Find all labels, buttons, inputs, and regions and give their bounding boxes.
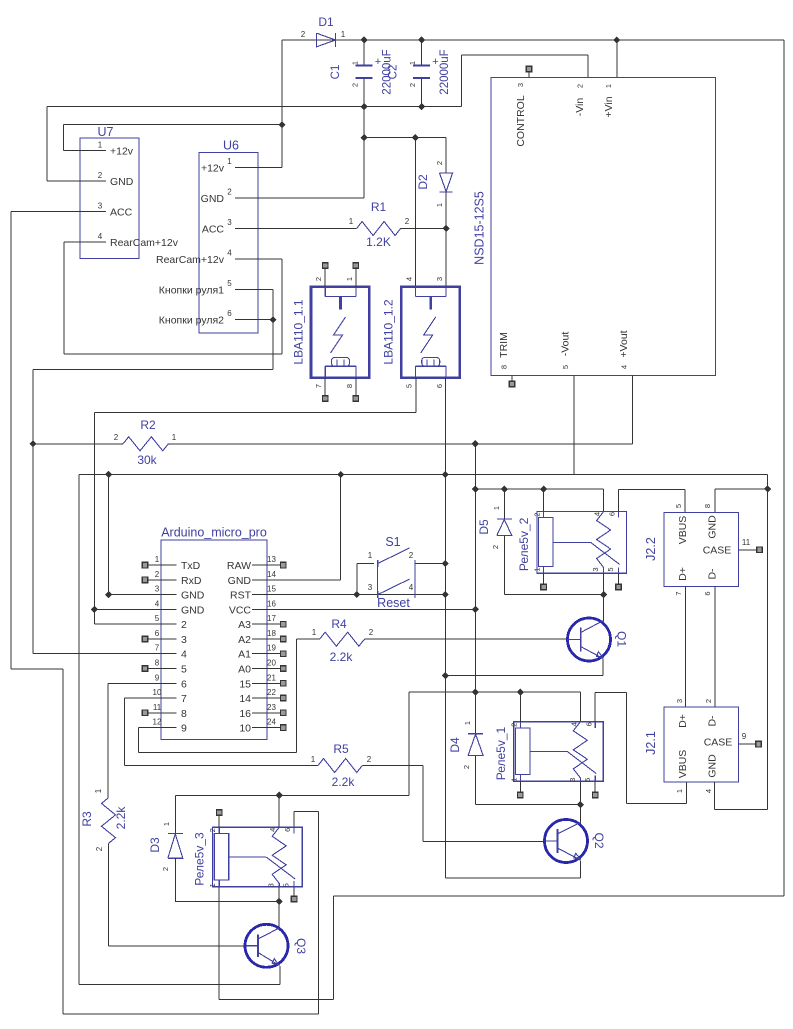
svg-text:1: 1 (341, 30, 346, 39)
node relay1 coil tap (517, 689, 524, 696)
wire -Vout GND rail (79, 474, 768, 476)
svg-text:+: + (432, 56, 438, 68)
wire +12V top rail (282, 39, 784, 41)
wire to U6 pin1 (281, 125, 283, 168)
wire U7 pin3 ACC to left rail (11, 211, 64, 213)
svg-text:13: 13 (267, 555, 276, 564)
node +5V tap (472, 440, 479, 447)
node Q3 collector/D3 (276, 898, 283, 905)
wire arduino GND14 (340, 475, 342, 580)
svg-text:1: 1 (98, 141, 103, 150)
svg-text:1: 1 (172, 433, 177, 442)
svg-text:+12v: +12v (201, 163, 225, 175)
svg-text:2: 2 (576, 84, 585, 88)
svg-text:4: 4 (569, 722, 578, 726)
svg-text:1: 1 (227, 157, 232, 166)
svg-text:1.2K: 1.2K (366, 235, 391, 249)
svg-text:3: 3 (516, 83, 525, 87)
relay2 pin5 pad (618, 573, 620, 584)
svg-text:6: 6 (703, 591, 712, 595)
svg-text:8: 8 (345, 384, 354, 388)
svg-text:9: 9 (742, 732, 747, 741)
node C1 top (361, 36, 368, 43)
svg-text:CASE: CASE (704, 737, 733, 749)
wire C1 to sub-rail (363, 107, 365, 138)
node S1 pin3 tap (353, 591, 360, 598)
svg-text:Q3: Q3 (294, 938, 308, 954)
wire J2.2 D- to J2.1 D- (714, 587, 716, 707)
svg-text:1: 1 (492, 506, 501, 510)
wire D1 anode drop to +12v node (281, 40, 283, 125)
svg-text:3: 3 (568, 778, 577, 782)
svg-text:1: 1 (351, 61, 360, 65)
svg-text:J2.2: J2.2 (644, 537, 658, 561)
capacitor C2 (421, 40, 423, 66)
svg-text:7: 7 (155, 644, 160, 653)
svg-text:11: 11 (742, 538, 751, 547)
wire U7 pin2 GND (46, 107, 48, 182)
wire LBA110_1.2 pin4 (414, 138, 416, 287)
node GND sub-rail left (361, 134, 368, 141)
module Arduino_micro_pro (161, 540, 267, 739)
svg-text:D1: D1 (318, 15, 334, 29)
svg-text:-Vin: -Vin (574, 98, 586, 117)
connector U7 (80, 138, 139, 258)
pin +Vout 4 (631, 375, 633, 444)
svg-text:2: 2 (114, 433, 119, 442)
svg-text:23: 23 (267, 703, 276, 712)
wire relay1 pin2 (519, 692, 521, 722)
relay Реле5v_3 (213, 827, 303, 887)
node +5V relay1 rail (472, 689, 479, 696)
node +5V VCC tap (472, 606, 479, 613)
svg-text:2.2k: 2.2k (114, 806, 128, 830)
wire VCC to +5V (267, 608, 475, 610)
resistor R3 (102, 798, 116, 844)
wire relay2 +5V rail (475, 488, 603, 490)
svg-text:5: 5 (561, 365, 570, 369)
wire D2 cathode chain (445, 138, 447, 173)
svg-text:2: 2 (369, 628, 374, 637)
transistor Q2 (545, 820, 588, 863)
svg-text:A1: A1 (238, 649, 251, 661)
connector U6 (199, 152, 258, 332)
svg-text:5: 5 (404, 384, 413, 388)
node arduino GND14 tap (337, 471, 344, 478)
svg-text:4: 4 (620, 365, 629, 369)
svg-text:4: 4 (98, 232, 103, 241)
svg-text:D+: D+ (677, 714, 689, 728)
svg-text:GND: GND (201, 193, 225, 205)
svg-text:5: 5 (155, 614, 160, 623)
svg-text:GND: GND (110, 176, 134, 188)
svg-text:A0: A0 (238, 663, 251, 675)
optocoupler LBA110_1.2 (401, 287, 459, 378)
svg-text:2: 2 (462, 765, 471, 769)
svg-text:2: 2 (367, 755, 372, 764)
resistor R4 (320, 632, 365, 646)
svg-text:21: 21 (267, 673, 276, 682)
wire relay3 pin3 to Q3 collector (278, 887, 280, 929)
svg-text:4: 4 (704, 789, 713, 793)
pin CONTROL 3 (528, 72, 530, 78)
svg-text:CASE: CASE (703, 545, 732, 557)
relay2 pin1 pad (543, 573, 545, 584)
svg-text:18: 18 (267, 629, 276, 638)
node J2.2 GND tee (764, 485, 771, 492)
svg-text:3: 3 (181, 634, 187, 646)
svg-text:1: 1 (345, 277, 354, 281)
wire GND top rail y=106.7 (47, 106, 462, 108)
wire J2.2 pin8 GND (715, 488, 768, 490)
node Q2 collector/D4 (577, 801, 584, 808)
svg-text:Реле5v_2: Реле5v_2 (517, 517, 531, 571)
svg-text:22: 22 (267, 688, 276, 697)
transistor Q3 (245, 924, 288, 967)
svg-text:5: 5 (583, 778, 592, 782)
svg-text:5: 5 (181, 663, 187, 675)
resistor R2 (33, 443, 123, 445)
svg-text:Reset: Reset (377, 596, 410, 610)
svg-text:-Vout: -Vout (560, 332, 572, 357)
svg-text:4: 4 (268, 828, 277, 832)
svg-text:6: 6 (181, 678, 187, 690)
node LBA110_1.2 pin4 tap (412, 134, 419, 141)
svg-text:2: 2 (181, 619, 187, 631)
svg-text:D-: D- (707, 568, 719, 580)
wire relay2 pin2 (543, 489, 545, 511)
svg-text:5: 5 (282, 883, 291, 887)
node +Vin (613, 36, 620, 43)
relay3 pin2 pad (218, 815, 220, 827)
svg-text:R3: R3 (80, 811, 94, 827)
wire +Vin from top rail (616, 40, 618, 78)
svg-text:D3: D3 (148, 837, 162, 853)
node Q1 emitter GND (442, 672, 449, 679)
svg-text:2: 2 (301, 30, 306, 39)
wire to U7 pin1 (63, 125, 65, 151)
wire J2.2 D+ to J2.1 D+ (685, 587, 687, 707)
svg-text:U6: U6 (223, 139, 239, 153)
svg-text:1: 1 (349, 217, 354, 226)
svg-text:1: 1 (463, 721, 472, 725)
svg-text:4: 4 (155, 599, 160, 608)
svg-text:3: 3 (98, 202, 103, 211)
node arduino pin3 gnd (105, 591, 112, 598)
svg-text:3: 3 (368, 583, 373, 592)
svg-text:6: 6 (435, 384, 444, 388)
wire RST to S1 (267, 594, 445, 596)
svg-text:Реле5v_1: Реле5v_1 (494, 727, 508, 781)
svg-text:3: 3 (675, 699, 684, 703)
svg-text:+Vin: +Vin (603, 96, 615, 117)
svg-text:1: 1 (368, 551, 373, 560)
svg-text:J2.1: J2.1 (644, 731, 658, 755)
svg-text:2: 2 (704, 699, 713, 703)
svg-text:6: 6 (155, 629, 160, 638)
svg-text:RAW: RAW (227, 560, 251, 572)
svg-text:2: 2 (161, 867, 170, 871)
svg-text:16: 16 (239, 708, 251, 720)
wire arduino pin12 to R4 (139, 727, 161, 729)
wire GND rail right drop (767, 475, 769, 810)
svg-text:15: 15 (239, 678, 251, 690)
wire arduino pin9 to R3 (108, 682, 161, 684)
svg-text:2: 2 (155, 570, 160, 579)
svg-text:2: 2 (491, 545, 500, 549)
wire GND left drop to Q3 emitter (78, 475, 80, 985)
svg-text:Arduino_micro_pro: Arduino_micro_pro (161, 525, 267, 539)
svg-text:2: 2 (405, 217, 410, 226)
wire U6 pin2 GND (363, 138, 365, 198)
svg-text:20: 20 (267, 658, 276, 667)
node R2 pin2 junction (29, 440, 36, 447)
svg-text:17: 17 (267, 614, 276, 623)
svg-text:C1: C1 (330, 65, 342, 80)
svg-text:6: 6 (227, 309, 232, 318)
svg-text:3: 3 (591, 567, 600, 571)
svg-text:4: 4 (404, 277, 413, 281)
svg-text:15: 15 (267, 585, 276, 594)
svg-text:2: 2 (435, 161, 444, 165)
svg-text:2: 2 (533, 512, 542, 516)
svg-text:1: 1 (533, 567, 542, 571)
relay Реле5v_2 (537, 512, 627, 574)
connector J2.1 (664, 707, 739, 782)
diode D4 (468, 733, 483, 735)
wire LBA110_1.2 pin6 down (GND column) (444, 378, 446, 878)
svg-text:7: 7 (674, 591, 683, 595)
node S1 pin4 / GND column (442, 591, 449, 598)
node buttons junction (269, 316, 276, 323)
node S1 pin2 / GND column (442, 560, 449, 567)
svg-text:5: 5 (227, 279, 232, 288)
capacitor C1 (363, 40, 365, 66)
svg-text:ACC: ACC (202, 224, 225, 236)
svg-text:2: 2 (351, 83, 360, 87)
svg-text:TxD: TxD (181, 560, 201, 572)
wire D3 +5V feed (174, 795, 176, 833)
node relay3 pin4 tap (276, 792, 283, 799)
svg-text:VCC: VCC (229, 604, 252, 616)
svg-text:7: 7 (181, 693, 187, 705)
svg-text:4: 4 (593, 512, 602, 516)
wire relay2 pin3 to Q1 collector (603, 573, 605, 621)
svg-text:3: 3 (227, 218, 232, 227)
svg-text:NSD15-12S5: NSD15-12S5 (473, 191, 487, 265)
wire GND sub-rail y=137.7 (364, 137, 446, 139)
svg-text:14: 14 (267, 570, 276, 579)
svg-text:Q2: Q2 (592, 832, 606, 848)
svg-text:1: 1 (604, 84, 613, 88)
node Q1 collector/D5 (600, 591, 607, 598)
svg-text:8: 8 (703, 504, 712, 508)
svg-text:9: 9 (181, 723, 187, 735)
svg-text:R2: R2 (140, 418, 156, 432)
node GND column tap (442, 471, 449, 478)
node pin4 GND tee (91, 606, 98, 613)
svg-text:A3: A3 (238, 619, 251, 631)
svg-text:2.2k: 2.2k (332, 775, 356, 789)
svg-text:12: 12 (153, 718, 162, 727)
svg-text:R1: R1 (371, 200, 387, 214)
node +12v junction (278, 121, 285, 128)
node +5V relay2 rail (472, 486, 479, 493)
svg-text:8: 8 (500, 365, 509, 369)
wire relay1 +5V rail (409, 691, 580, 693)
wire LBA110_1.2 pin5 to GND net (415, 378, 417, 413)
wire arduino pin4 GND (94, 608, 161, 610)
optocoupler LBA110_1.1 (311, 287, 369, 378)
svg-text:D+: D+ (677, 567, 689, 581)
svg-text:1: 1 (675, 789, 684, 793)
wire relay1 pin6 to J2.1 VBUS (594, 692, 596, 721)
node D5 tap (501, 486, 508, 493)
node C2 top (418, 36, 425, 43)
svg-text:8: 8 (155, 658, 160, 667)
svg-text:RearCam+12v: RearCam+12v (110, 237, 179, 249)
svg-text:VBUS: VBUS (677, 750, 689, 779)
svg-text:10: 10 (239, 723, 251, 735)
svg-text:1: 1 (94, 788, 103, 793)
diode D2 (440, 173, 453, 192)
svg-text:RST: RST (230, 590, 252, 602)
relay1 pin1 pad (519, 781, 521, 792)
svg-text:7: 7 (314, 384, 323, 388)
node C2 bottom (418, 103, 425, 110)
svg-text:D-: D- (707, 715, 719, 727)
svg-text:RearCam+12v: RearCam+12v (156, 254, 225, 266)
svg-text:CONTROL: CONTROL (515, 95, 527, 146)
wire relay1 pin3 to Q2 collector (579, 781, 581, 823)
svg-text:5: 5 (606, 567, 615, 571)
svg-text:1: 1 (435, 203, 444, 207)
connector J2.2 (664, 512, 739, 586)
svg-text:2: 2 (509, 723, 518, 727)
wire Q1 emitter to GND column (602, 659, 604, 676)
svg-text:D4: D4 (448, 737, 462, 753)
svg-text:+Vout: +Vout (618, 330, 630, 357)
svg-text:D2: D2 (416, 174, 430, 190)
svg-text:Кнопки руля2: Кнопки руля2 (159, 315, 224, 327)
svg-text:1: 1 (408, 61, 417, 65)
wire relay2 pin6 to J2.2 VBUS (618, 489, 620, 511)
svg-text:+12v: +12v (110, 146, 134, 158)
svg-text:3: 3 (435, 277, 444, 281)
relay1 pin5 pad (594, 781, 596, 792)
svg-text:10: 10 (153, 688, 162, 697)
svg-text:3: 3 (267, 883, 276, 887)
svg-text:1: 1 (162, 822, 171, 826)
svg-text:2: 2 (227, 188, 232, 197)
relay Реле5v_1 (514, 722, 604, 782)
relay3 pin5 pad (293, 887, 295, 896)
svg-text:22000uF: 22000uF (439, 49, 451, 94)
wire relay3 pin1 to +12V return (218, 887, 220, 1000)
svg-text:6: 6 (584, 722, 593, 726)
svg-text:S1: S1 (385, 535, 400, 549)
svg-text:2.2k: 2.2k (330, 650, 354, 664)
svg-text:1: 1 (312, 628, 317, 637)
svg-text:LBA110_1.1: LBA110_1.1 (292, 299, 306, 364)
svg-text:GND: GND (228, 575, 252, 587)
svg-text:8: 8 (181, 708, 187, 720)
svg-text:30k: 30k (137, 453, 157, 467)
svg-text:14: 14 (239, 693, 251, 705)
svg-text:16: 16 (267, 599, 276, 608)
svg-text:11: 11 (153, 703, 162, 712)
transistor Q1 (568, 618, 611, 661)
svg-text:RxD: RxD (181, 575, 202, 587)
svg-text:6: 6 (283, 828, 292, 832)
wire GND rail to -Vin (461, 55, 463, 107)
svg-text:2: 2 (409, 551, 414, 560)
wire relay3 pin4 (278, 795, 280, 827)
wire arduino pin10 to R5 (125, 697, 162, 699)
svg-text:1: 1 (311, 755, 316, 764)
svg-text:LBA110_1.2: LBA110_1.2 (382, 299, 396, 364)
wire J2.1 GND pin4 (713, 782, 715, 810)
svg-text:6: 6 (608, 512, 617, 516)
pin J2.2 CASE 11 (739, 549, 757, 551)
svg-text:R4: R4 (331, 617, 347, 631)
svg-text:GND: GND (181, 590, 205, 602)
svg-text:R5: R5 (333, 742, 349, 756)
svg-text:1: 1 (155, 555, 160, 564)
svg-text:5: 5 (674, 504, 683, 508)
svg-text:D5: D5 (477, 519, 491, 535)
svg-text:2: 2 (314, 277, 323, 281)
node GND jumper (105, 471, 112, 478)
wire +5V vertical column (474, 444, 476, 734)
svg-text:24: 24 (267, 718, 276, 727)
node C1 bottom (361, 103, 368, 110)
svg-text:2: 2 (98, 171, 103, 180)
resistor R1 (357, 222, 401, 236)
svg-text:GND: GND (181, 604, 205, 616)
wire right outer +12V rail (783, 40, 785, 896)
svg-text:2: 2 (408, 83, 417, 87)
svg-text:VBUS: VBUS (677, 516, 689, 545)
pin -Vout 5 (573, 375, 575, 474)
diode D5 (503, 489, 505, 519)
svg-text:TRIM: TRIM (498, 332, 510, 358)
svg-text:2: 2 (208, 828, 217, 832)
svg-text:3: 3 (155, 585, 160, 594)
svg-text:4: 4 (409, 583, 414, 592)
diode D1 (317, 33, 336, 47)
svg-text:4: 4 (227, 248, 232, 257)
svg-text:Реле5v_3: Реле5v_3 (193, 832, 207, 886)
svg-text:GND: GND (707, 754, 719, 778)
svg-text:19: 19 (267, 644, 276, 653)
svg-text:4: 4 (181, 649, 187, 661)
node D2/R1 junction (443, 225, 450, 232)
wire GND jumper to arduino pin3 (108, 475, 110, 595)
svg-text:1: 1 (208, 883, 217, 887)
wire U7 pin4 RearCam to U6 pin4 (63, 242, 65, 354)
wire +5V rail down to D3 net (408, 692, 410, 795)
wire R2 pin1 to +5V rail (168, 443, 632, 445)
wire +12v distribution y=124.7 (64, 124, 282, 126)
svg-text:GND: GND (707, 515, 719, 539)
svg-text:9: 9 (155, 673, 160, 682)
pin TRIM 8 (511, 375, 513, 381)
module NSD15-12S5 (491, 78, 716, 376)
pin J2.1 CASE 9 (739, 743, 756, 745)
svg-text:2: 2 (95, 846, 104, 851)
resistor R5 (318, 759, 362, 773)
